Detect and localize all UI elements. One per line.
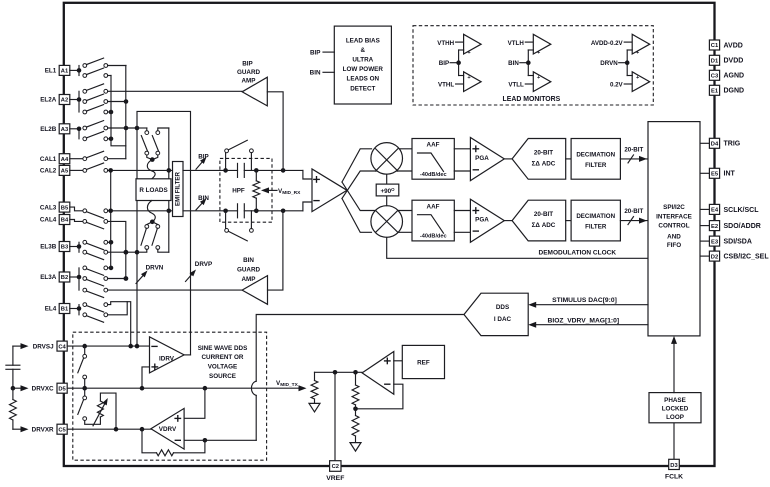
svg-text:LEAD BIAS: LEAD BIAS <box>346 37 380 44</box>
svg-text:FIFO: FIFO <box>667 242 681 249</box>
block DDS I DAC <box>464 293 528 335</box>
resistor VDRV feedback <box>142 429 205 456</box>
block LEAD BIAS / ULTRA LOW POWER LEADS ON DETECT <box>334 26 391 104</box>
pin B2 EL3A <box>40 272 70 282</box>
svg-text:C5: C5 <box>58 427 66 433</box>
block AAF row1 <box>412 139 454 180</box>
bus A (BIP select) <box>125 66 127 159</box>
wire HPF to amp plus <box>303 170 312 179</box>
svg-text:DETECT: DETECT <box>350 85 375 92</box>
block DECIMATION FILTER row2 <box>571 200 620 241</box>
svg-text:R LOADS: R LOADS <box>139 187 167 194</box>
comparator VTHL <box>438 72 481 92</box>
block LEAD MONITORS dashed <box>413 26 653 105</box>
block REF <box>394 345 445 378</box>
wire EL3A to BIN guard amp output <box>108 289 243 291</box>
bus B (BIP select 2) <box>111 76 126 146</box>
wire BIN line <box>108 209 172 214</box>
svg-text:DRVXC: DRVXC <box>32 385 54 392</box>
svg-text:ULTRA: ULTRA <box>352 57 373 64</box>
mixer top <box>371 143 403 175</box>
wire BIN to HPF <box>183 209 303 214</box>
svg-text:VDRV: VDRV <box>159 426 177 433</box>
svg-text:20-BIT: 20-BIT <box>534 211 553 218</box>
op-amp PGA row1 <box>470 138 504 181</box>
switch CAL1 <box>70 151 126 160</box>
node EL1 junction <box>70 66 81 76</box>
svg-text:VTHH: VTHH <box>437 40 454 47</box>
svg-text:A1: A1 <box>61 69 69 75</box>
block EMI FILTER <box>173 162 184 217</box>
wire bottom mixer outputs <box>390 211 412 233</box>
svg-text:DRVN: DRVN <box>146 264 164 271</box>
switch CAL3 <box>70 207 111 218</box>
wire r-loads chain right rail <box>167 128 172 252</box>
bus mid (CAL to BIN) <box>110 170 112 268</box>
comparator 0.2V <box>610 72 650 92</box>
comparator VTLL <box>508 72 550 92</box>
wire 20-BIT bus to SPI row1 <box>620 146 648 163</box>
svg-text:AVDD: AVDD <box>724 42 743 49</box>
block AAF row2 <box>412 200 454 241</box>
label SINE WAVE DDS CURRENT OR VOLTAGE SOURCE <box>198 345 248 380</box>
pin E2 SDO/ADDR <box>700 221 761 231</box>
wire amp to bottom mixer lower <box>342 199 372 233</box>
svg-text:STIMULUS DAC[9:0]: STIMULUS DAC[9:0] <box>552 297 617 304</box>
wire BIOZ_VDRV_MAG[1:0] <box>528 317 648 327</box>
resistor VREF divider upper <box>352 372 359 409</box>
svg-text:EL2A: EL2A <box>40 97 57 104</box>
block SPI/I2C INTERFACE CONTROL AND FIFO <box>648 122 700 336</box>
svg-text:BIOZ_VDRV_MAG[1:0]: BIOZ_VDRV_MAG[1:0] <box>548 317 620 324</box>
svg-text:DGND: DGND <box>724 88 745 95</box>
svg-text:C4: C4 <box>58 344 66 350</box>
svg-text:E3: E3 <box>711 239 719 245</box>
svg-text:DECIMATION: DECIMATION <box>576 151 615 158</box>
svg-text:EL3B: EL3B <box>40 244 57 251</box>
pin E1 DGND <box>709 85 744 95</box>
switch EL3B-b <box>83 250 137 260</box>
wire DRVN bus <box>135 126 140 346</box>
resistor VMID divider <box>311 372 318 403</box>
wire DRVXC VMID_TX line <box>67 385 306 391</box>
mixer bottom <box>371 206 403 238</box>
pin E4 SCLK/SCL <box>700 204 759 214</box>
svg-text:-40dB/dec: -40dB/dec <box>420 234 447 240</box>
switch RL-top-1 <box>137 128 149 155</box>
switch EL3A-c <box>83 288 108 297</box>
pin B5 CAL3 <box>40 202 70 212</box>
wire ADC to decimation row1 <box>566 158 571 160</box>
node EL2A junction <box>70 91 81 112</box>
pin D2 CSB/I2C_SEL <box>700 251 769 261</box>
pin C5 DRVXR <box>13 424 67 434</box>
external junction DRVXC <box>11 386 16 391</box>
wire STIMULUS DAC[9:0] <box>528 297 648 308</box>
block SINE WAVE DDS dashed <box>73 332 267 460</box>
svg-text:SOURCE: SOURCE <box>209 373 236 380</box>
svg-text:D3: D3 <box>670 463 678 469</box>
op-amp RX instrumentation amp <box>312 169 347 212</box>
pin D1 DVDD <box>709 55 743 65</box>
svg-text:VOLTAGE: VOLTAGE <box>208 364 238 371</box>
label BIN <box>196 195 209 210</box>
wire 20-BIT bus to SPI row2 <box>620 208 648 225</box>
svg-text:VTHL: VTHL <box>438 82 454 89</box>
label DRVN <box>136 264 164 283</box>
switch DRVXC-DRVXR <box>78 388 87 420</box>
svg-text:&: & <box>361 47 366 54</box>
svg-text:D1: D1 <box>711 59 719 65</box>
op-amp BIN GUARD AMP <box>237 257 268 304</box>
wire BIN guard amp input <box>268 211 283 290</box>
switch HPF bypass top <box>225 140 254 170</box>
node BIP monitor <box>439 50 464 76</box>
svg-text:EL2B: EL2B <box>40 126 57 133</box>
svg-text:GUARD: GUARD <box>237 267 261 274</box>
svg-text:BIN: BIN <box>508 60 519 67</box>
wire VREF rail <box>315 370 363 375</box>
svg-text:20-BIT: 20-BIT <box>624 208 643 215</box>
svg-text:VTLH: VTLH <box>508 40 525 47</box>
switch EL2B-b <box>83 131 113 141</box>
wire VDRV minus input <box>184 438 256 443</box>
wire demodulation clock <box>387 237 648 258</box>
svg-text:B4: B4 <box>61 218 69 224</box>
wire AAF to PGA row2 <box>454 211 470 233</box>
label DRVP <box>186 261 213 281</box>
pin C4 DRVSJ <box>13 341 67 351</box>
external capacitor on DRVSJ-DRVXC <box>6 346 20 388</box>
svg-text:-40dB/dec: -40dB/dec <box>420 172 447 178</box>
wire HPF to amp minus <box>303 202 312 211</box>
wire amp to top mixer lower <box>342 171 378 199</box>
wire DRVP bus from IDRV <box>137 111 191 355</box>
svg-text:DEMODULATION CLOCK: DEMODULATION CLOCK <box>539 249 617 256</box>
svg-text:SPI/I2C: SPI/I2C <box>663 204 685 211</box>
wire BIP to HPF <box>183 168 303 173</box>
svg-text:INT: INT <box>724 171 736 178</box>
svg-text:SDO/ADDR: SDO/ADDR <box>724 223 761 230</box>
switch EL4-b <box>83 302 127 323</box>
wire IDRV output to DRVP <box>184 354 190 356</box>
svg-text:SCLK/SCL: SCLK/SCL <box>724 207 760 214</box>
switch EL3B-a <box>83 240 113 250</box>
wire DRVSJ line <box>67 344 149 349</box>
svg-text:ΣΔ ADC: ΣΔ ADC <box>532 160 556 167</box>
capacitor HPF bottom <box>238 204 245 218</box>
svg-text:E2: E2 <box>711 224 718 230</box>
svg-text:LOOP: LOOP <box>666 414 684 421</box>
svg-text:B1: B1 <box>61 307 69 313</box>
node EL2B junction <box>70 127 81 139</box>
switch EL2A-c <box>83 105 113 115</box>
svg-text:CAL4: CAL4 <box>40 217 57 224</box>
svg-text:B2: B2 <box>61 275 68 281</box>
svg-text:DRVSJ: DRVSJ <box>33 343 54 350</box>
svg-text:CURRENT OR: CURRENT OR <box>202 354 244 361</box>
svg-text:ΣΔ ADC: ΣΔ ADC <box>532 222 556 229</box>
svg-text:CAL3: CAL3 <box>40 204 57 211</box>
comparator VTLH <box>508 34 551 56</box>
block 20-BIT sigma-delta ADC row2 <box>512 200 566 241</box>
label BIP lead bias input <box>310 50 334 57</box>
resistor HPF <box>253 170 260 210</box>
svg-text:BIP: BIP <box>439 60 449 67</box>
block DECIMATION FILTER row1 <box>571 139 620 180</box>
switch EL2A-a <box>83 84 108 93</box>
capacitor HPF top <box>238 163 245 177</box>
pin B1 EL4 <box>45 304 70 314</box>
wire DRVXR line <box>67 427 151 432</box>
svg-text:FILTER: FILTER <box>585 162 607 169</box>
svg-text:A5: A5 <box>61 169 69 175</box>
wire ADC to decimation row2 <box>566 220 571 222</box>
svg-text:D5: D5 <box>58 386 66 392</box>
switch EL3A-a <box>83 266 113 276</box>
wire BIP guard amp input <box>267 92 283 171</box>
switch HPF bypass bottom <box>225 211 254 241</box>
wire IDRV plus input <box>142 367 150 388</box>
label BIP <box>196 154 209 170</box>
svg-text:BIP: BIP <box>242 61 253 68</box>
switch EL2B-a <box>83 121 137 131</box>
wire BIP line <box>108 168 172 173</box>
node EL4 junction <box>70 305 81 315</box>
svg-text:DRVN: DRVN <box>600 60 618 67</box>
svg-text:AMP: AMP <box>242 276 256 283</box>
pin C3 AGND <box>709 70 744 80</box>
block +90 phase shift <box>376 174 399 206</box>
svg-text:A4: A4 <box>61 157 69 163</box>
svg-text:IDRV: IDRV <box>159 355 175 362</box>
switch EL2A-b <box>83 94 128 104</box>
block PHASE LOCKED LOOP <box>649 393 701 423</box>
wire PGA to ADC row2 <box>504 220 512 222</box>
svg-text:0.2V: 0.2V <box>610 82 624 89</box>
pin C1 AVDD <box>709 40 742 50</box>
op-amp IDRV <box>150 337 185 373</box>
svg-text:VTLL: VTLL <box>508 82 524 89</box>
switch CAL2 <box>70 163 111 172</box>
ground VMID <box>309 403 320 412</box>
switch DRVSJ-DRVXC <box>78 346 87 388</box>
svg-text:PGA: PGA <box>475 155 489 162</box>
svg-text:FILTER: FILTER <box>585 224 607 231</box>
wire PGA to ADC row1 <box>504 158 512 160</box>
pin E5 INT <box>700 168 736 178</box>
svg-text:DVDD: DVDD <box>724 58 744 65</box>
svg-text:FCLK: FCLK <box>665 474 683 481</box>
switch EL4-a <box>83 302 131 346</box>
wire REF amp feedback <box>353 384 403 411</box>
svg-text:I DAC: I DAC <box>494 316 512 323</box>
label VMID_RX <box>261 187 301 196</box>
switch EL1-a <box>83 58 126 67</box>
wire AAF to PGA row1 <box>454 149 470 171</box>
ground VREF divider <box>350 443 361 452</box>
svg-text:EL3A: EL3A <box>40 274 57 281</box>
comparator VTHH <box>437 34 481 56</box>
node RL top <box>147 155 158 162</box>
svg-text:EL4: EL4 <box>45 306 57 313</box>
pin A4 CAL1 <box>40 154 70 164</box>
svg-text:E1: E1 <box>711 89 719 95</box>
svg-text:LEADS ON: LEADS ON <box>347 76 380 83</box>
pin B4 CAL4 <box>40 215 70 225</box>
node EL3B junction <box>70 242 81 252</box>
svg-text:AAF: AAF <box>427 142 440 149</box>
switch EL3A-b <box>83 276 128 286</box>
svg-text:TRIG: TRIG <box>724 141 741 148</box>
svg-text:DRVXR: DRVXR <box>32 426 54 433</box>
op-amp PGA row2 <box>470 199 504 242</box>
svg-text:AND: AND <box>667 233 681 240</box>
svg-text:E4: E4 <box>711 208 719 214</box>
svg-text:D2: D2 <box>711 254 718 260</box>
svg-text:C1: C1 <box>711 43 719 49</box>
svg-text:INTERFACE: INTERFACE <box>656 213 692 220</box>
wire PLL to SPI <box>671 336 677 393</box>
pin A1 EL1 <box>45 65 70 75</box>
pin C2 VREF <box>326 372 344 482</box>
svg-text:D4: D4 <box>711 142 719 148</box>
node DRVN monitor <box>600 50 632 76</box>
svg-text:PGA: PGA <box>475 217 489 224</box>
op-amp REF buffer <box>362 352 394 395</box>
pin A3 EL2B <box>40 124 70 134</box>
label BIN lead bias input <box>310 70 335 77</box>
svg-text:HPF: HPF <box>232 188 245 195</box>
svg-text:CAL1: CAL1 <box>40 156 57 163</box>
pin D4 TRIG <box>700 138 741 148</box>
switch EL1-b <box>83 68 111 77</box>
block 20-BIT sigma-delta ADC row1 <box>512 139 566 180</box>
svg-text:EMI FILTER: EMI FILTER <box>175 172 182 206</box>
svg-text:AMP: AMP <box>242 78 256 85</box>
svg-text:VREF: VREF <box>326 475 344 482</box>
block HPF dashed <box>220 158 272 222</box>
svg-text:AAF: AAF <box>427 203 440 210</box>
svg-text:SINE WAVE DDS: SINE WAVE DDS <box>198 345 248 352</box>
switch RL-top-2 <box>152 128 169 155</box>
svg-text:EL1: EL1 <box>45 68 57 75</box>
svg-text:20-BIT: 20-BIT <box>534 149 553 156</box>
svg-text:E5: E5 <box>711 172 719 178</box>
svg-text:C3: C3 <box>711 74 719 80</box>
svg-text:GUARD: GUARD <box>237 69 261 76</box>
svg-text:C2: C2 <box>332 464 339 470</box>
svg-text:BIN: BIN <box>310 70 321 77</box>
node RL bottom <box>147 220 158 225</box>
svg-text:DECIMATION: DECIMATION <box>576 213 615 220</box>
op-amp BIP GUARD AMP <box>237 61 267 106</box>
pin D5 DRVXC <box>13 383 67 393</box>
svg-text:A2: A2 <box>61 98 68 104</box>
pin D3 FCLK <box>665 423 683 481</box>
wire EL2A to BIP guard amp output <box>108 90 243 92</box>
svg-text:BIP: BIP <box>310 50 321 57</box>
wire VDRV plus input <box>184 388 205 418</box>
svg-text:LOCKED: LOCKED <box>662 406 689 413</box>
svg-text:LEAD MONITORS: LEAD MONITORS <box>503 96 561 103</box>
svg-text:DDS: DDS <box>496 304 509 311</box>
wire amp to top mixer upper <box>342 149 372 182</box>
external resistor on DRVXC-DRVXR <box>10 388 17 429</box>
pin A2 EL2A <box>40 95 70 105</box>
node BIN monitor <box>508 50 533 76</box>
resistor VREF divider lower <box>352 409 359 443</box>
svg-text:PHASE: PHASE <box>664 397 686 404</box>
svg-text:REF: REF <box>417 360 430 367</box>
svg-text:B5: B5 <box>61 205 69 211</box>
switch CAL4 <box>70 220 128 281</box>
block R LOADS <box>136 179 171 201</box>
rheostat programmable load <box>85 393 116 429</box>
switch RL-bot-1 <box>137 225 149 253</box>
switch RL-bot-2 <box>152 225 169 253</box>
svg-text:CONTROL: CONTROL <box>658 223 689 230</box>
svg-text:A3: A3 <box>61 127 69 133</box>
pin A5 CAL2 <box>40 165 70 175</box>
pin E3 SDI/SDA <box>700 236 752 246</box>
svg-text:20-BIT: 20-BIT <box>624 146 643 153</box>
wire DDS DAC output <box>251 315 464 441</box>
svg-text:SDI/SDA: SDI/SDA <box>724 239 752 246</box>
svg-text:AGND: AGND <box>724 73 745 80</box>
svg-text:CSB/I2C_SEL: CSB/I2C_SEL <box>724 254 770 261</box>
svg-text:BIN: BIN <box>243 257 254 264</box>
wire wavy to R LOADS <box>147 160 155 179</box>
wire wavy from R LOADS <box>147 201 155 222</box>
comparator AVDD-0.2V <box>591 34 650 56</box>
svg-text:B3: B3 <box>61 245 69 251</box>
wire amp to bottom mixer upper <box>342 182 378 211</box>
wire top mixer outputs <box>390 149 412 171</box>
node EL3A junction <box>70 268 81 290</box>
svg-text:AVDD-0.2V: AVDD-0.2V <box>591 40 624 47</box>
svg-text:DRVP: DRVP <box>195 261 212 268</box>
op-amp VDRV <box>151 408 184 449</box>
svg-text:LOW POWER: LOW POWER <box>343 66 384 73</box>
pin B3 EL3B <box>40 242 70 252</box>
svg-text:CAL2: CAL2 <box>40 168 57 175</box>
